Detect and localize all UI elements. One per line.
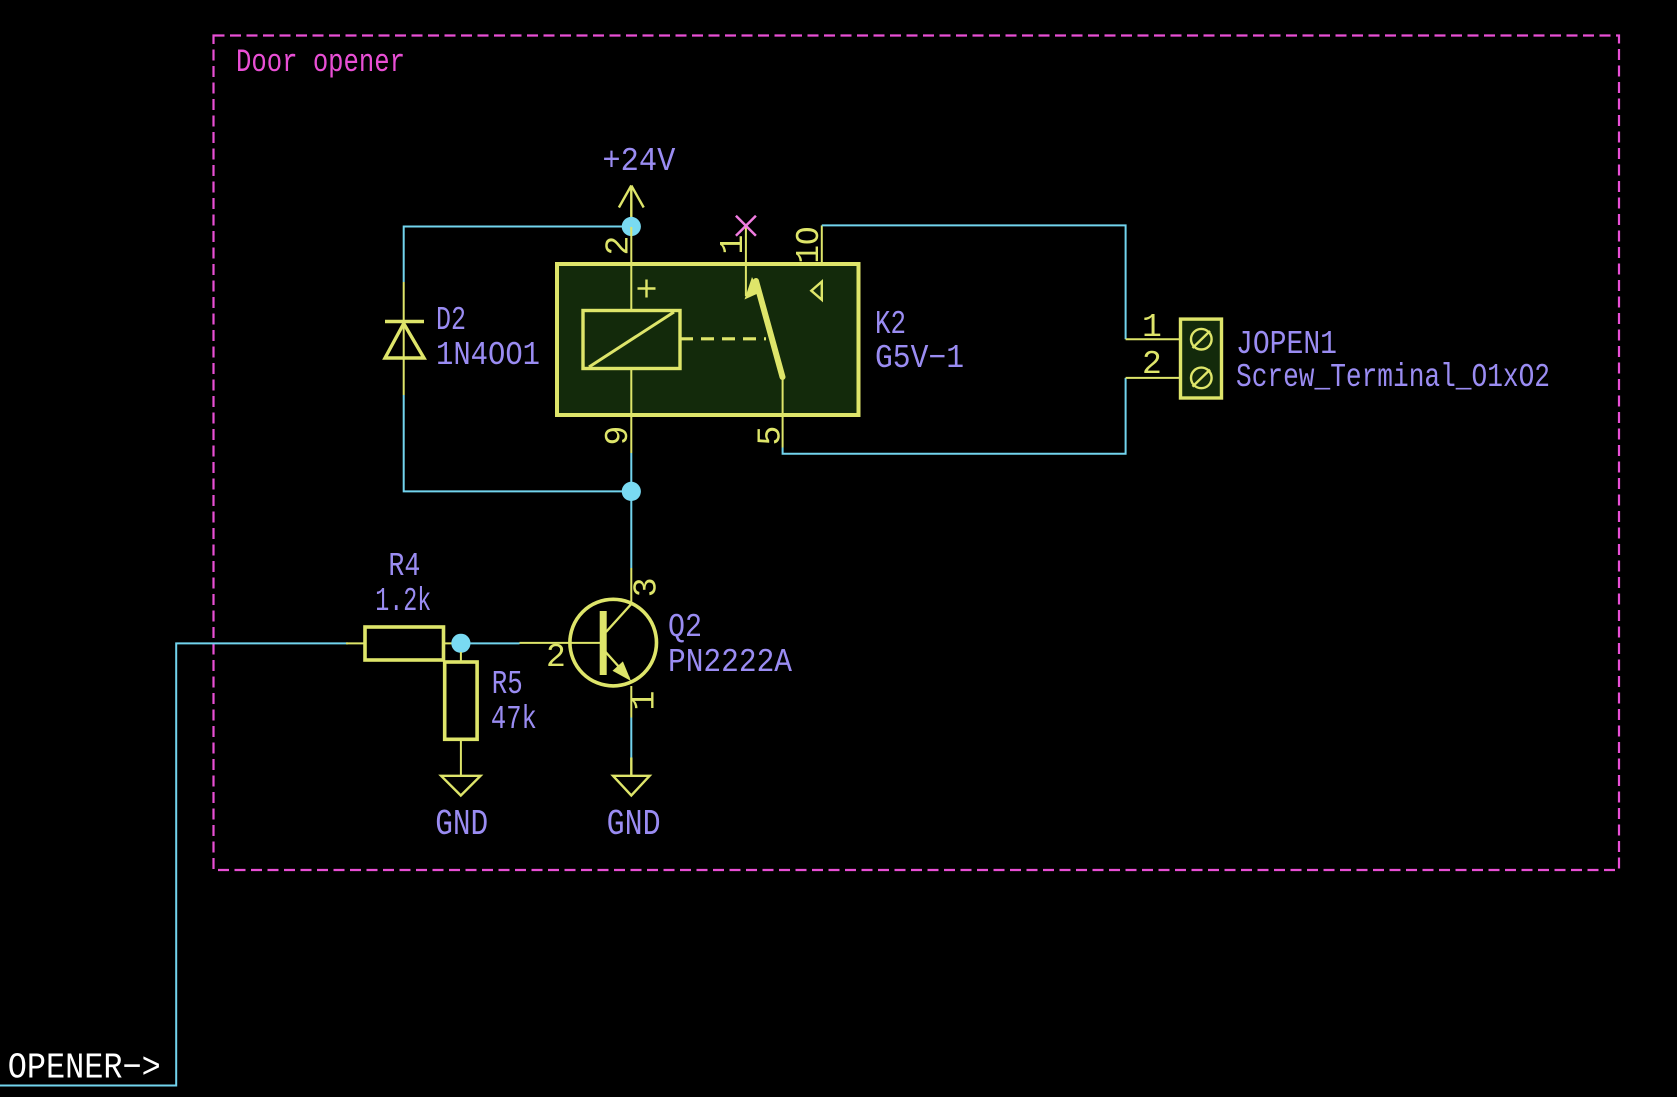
relay K2 body bbox=[557, 264, 859, 415]
svg-text:1.2k: 1.2k bbox=[375, 583, 431, 620]
svg-text:R5: R5 bbox=[492, 666, 523, 703]
relay coil-switch dashed link bbox=[680, 337, 766, 340]
relay pin 10 (top right) bbox=[821, 225, 823, 264]
relay pin 5 (bottom right) bbox=[782, 377, 784, 448]
ground symbol (emitter) bbox=[613, 758, 650, 796]
resistor R4 bbox=[346, 627, 461, 660]
junction below relay bbox=[622, 482, 641, 501]
svg-text:Door opener: Door opener bbox=[236, 44, 405, 81]
svg-text:1O: 1O bbox=[791, 227, 828, 264]
svg-text:OPENER−>: OPENER−> bbox=[8, 1048, 161, 1089]
sheet border "Door opener" dashed box bbox=[214, 36, 1620, 871]
wire from OPENER label up to R4 bbox=[0, 643, 348, 1085]
svg-text:GND: GND bbox=[435, 804, 488, 845]
svg-text:5: 5 bbox=[752, 426, 789, 446]
relay common triangle marker bbox=[811, 282, 822, 300]
relay coil pin stubs inside body bbox=[630, 264, 632, 415]
relay pin 1 (top, no-connect) bbox=[745, 227, 747, 297]
screw terminal JOPEN1 body bbox=[1181, 319, 1222, 398]
svg-text:1: 1 bbox=[715, 235, 752, 255]
svg-text:3: 3 bbox=[629, 577, 666, 597]
JOPEN1 pin 1 bbox=[1126, 338, 1181, 340]
wire relay pin10 to JOPEN1 pin1 bbox=[822, 225, 1126, 339]
svg-text:R4: R4 bbox=[388, 548, 420, 585]
junction at R4/R5/base bbox=[451, 634, 470, 653]
svg-text:+24V: +24V bbox=[602, 143, 675, 180]
wire R4 to base (short) bbox=[461, 642, 520, 644]
wire from diode bottom to lower junction bbox=[404, 395, 632, 491]
svg-text:D2: D2 bbox=[436, 302, 466, 339]
no-connect X marker bbox=[736, 216, 756, 236]
relay coil rectangle bbox=[583, 311, 680, 369]
relay pin 2 (top) bbox=[630, 227, 632, 264]
power symbol +24V bbox=[619, 186, 644, 228]
svg-text:GND: GND bbox=[607, 804, 661, 845]
svg-text:PN2222A: PN2222A bbox=[668, 644, 792, 681]
JOPEN1 screw 2 bbox=[1191, 368, 1212, 389]
svg-text:K2: K2 bbox=[875, 306, 906, 343]
diode D2 bbox=[385, 282, 424, 395]
wire from +24V junction to diode top corner bbox=[404, 227, 632, 283]
resistor R5 bbox=[445, 652, 477, 776]
relay pin 9 (bottom left) bbox=[630, 415, 632, 453]
svg-text:9: 9 bbox=[600, 426, 637, 446]
JOPEN1 screw 1 bbox=[1191, 329, 1212, 350]
svg-text:47k: 47k bbox=[491, 701, 537, 738]
svg-text:JOPEN1: JOPEN1 bbox=[1236, 326, 1337, 363]
relay coil plus mark bbox=[638, 280, 656, 298]
svg-text:Q2: Q2 bbox=[668, 609, 702, 646]
svg-text:2: 2 bbox=[601, 236, 638, 256]
svg-text:2: 2 bbox=[546, 639, 566, 676]
svg-text:1: 1 bbox=[1142, 309, 1162, 346]
svg-text:G5V−1: G5V−1 bbox=[875, 340, 964, 377]
transistor Q2 bbox=[520, 568, 657, 718]
junction at +24V node bbox=[622, 217, 641, 236]
JOPEN1 pin 2 bbox=[1126, 377, 1181, 379]
wire pin9 to collector junction bbox=[630, 453, 632, 568]
relay switch arm bbox=[756, 281, 783, 377]
svg-text:Screw_Terminal_O1xO2: Screw_Terminal_O1xO2 bbox=[1236, 359, 1550, 396]
svg-text:2: 2 bbox=[1142, 346, 1162, 383]
wire emitter to GND bbox=[630, 718, 632, 758]
svg-text:1: 1 bbox=[627, 691, 664, 711]
ground symbol (R5) bbox=[441, 776, 480, 796]
relay coil diagonal bbox=[589, 312, 674, 367]
transistor emitter arrowhead bbox=[613, 661, 632, 681]
svg-text:1N4OO1: 1N4OO1 bbox=[436, 337, 540, 374]
relay switch arrowhead bbox=[745, 277, 761, 300]
wire relay pin5 to JOPEN1 pin2 bbox=[783, 378, 1126, 454]
